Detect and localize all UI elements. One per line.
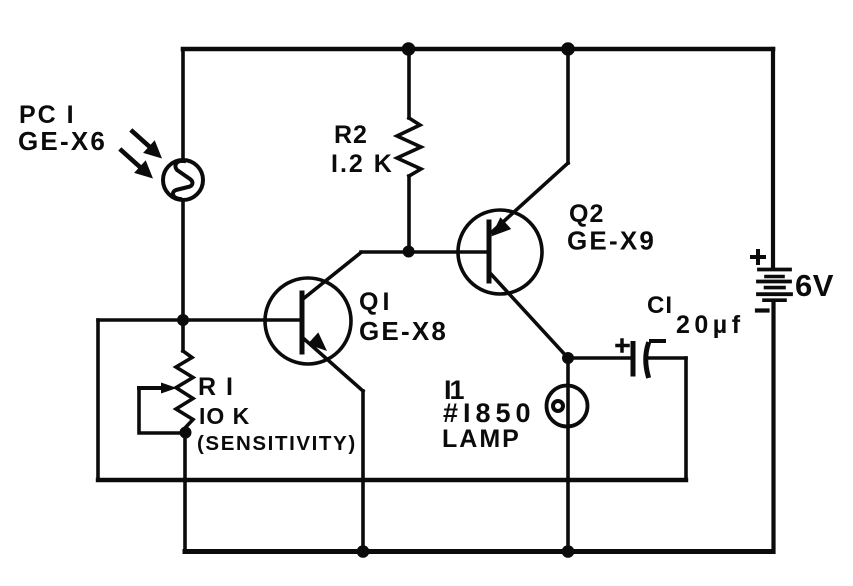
transistor Q2 bbox=[458, 163, 568, 358]
label C1 20uf bbox=[647, 292, 745, 339]
label I1 1850 LAMP bbox=[442, 375, 536, 453]
label PC1 GE-X6 bbox=[18, 101, 107, 156]
wire left box left side bbox=[96, 320, 100, 480]
lamp I1 bbox=[547, 386, 588, 427]
node collector junction dot bbox=[403, 246, 415, 258]
label R1 10K SENSITIVITY bbox=[197, 373, 357, 455]
wire node to capacitor bbox=[568, 356, 631, 360]
resistor R2 element bbox=[397, 118, 421, 176]
node base junction dot bbox=[177, 314, 189, 326]
svg-text:GE-X9: GE-X9 bbox=[567, 226, 656, 256]
label Q2 GE-X9 bbox=[567, 200, 656, 256]
battery minus sign bbox=[757, 308, 768, 312]
svg-text:#I850: #I850 bbox=[443, 398, 536, 428]
wire node down through lamp to bottom rail bbox=[566, 358, 570, 552]
capacitor plus sign bbox=[617, 340, 628, 351]
light arrow 1 into PC1 bbox=[133, 132, 163, 159]
capacitor minus sign bbox=[651, 339, 664, 343]
svg-text:6V: 6V bbox=[795, 268, 834, 303]
node Q1 emitter bottom dot bbox=[357, 545, 370, 558]
wire bottom horizontal (y=478) bbox=[98, 478, 686, 482]
wire battery to bottom rail bbox=[771, 303, 775, 552]
node top rail R2 dot bbox=[402, 42, 416, 56]
node lamp bottom dot bbox=[562, 545, 575, 558]
battery B1 bbox=[758, 270, 791, 301]
potentiometer R1 resistive element bbox=[176, 351, 193, 429]
svg-text:PC I: PC I bbox=[19, 101, 76, 129]
svg-text:R2: R2 bbox=[334, 121, 368, 149]
svg-text:20µf: 20µf bbox=[676, 311, 745, 339]
wire collector rail Q1 to Q2 base bbox=[361, 250, 489, 254]
svg-text:GE-X8: GE-X8 bbox=[359, 316, 448, 346]
svg-text:IO K: IO K bbox=[199, 403, 250, 429]
svg-text:GE-X6: GE-X6 bbox=[18, 126, 107, 156]
wire capacitor to right box bbox=[648, 356, 686, 360]
potentiometer R1 wiper arrow bbox=[139, 383, 177, 394]
wire bottom rail bbox=[185, 549, 773, 554]
node R1 bottom dot bbox=[180, 427, 192, 439]
photocell PC1 bbox=[163, 160, 203, 200]
wire Q2 upper lead to top rail bbox=[566, 49, 570, 163]
svg-text:I.2 K: I.2 K bbox=[331, 150, 394, 178]
wire photocell to base node bbox=[181, 200, 185, 320]
wire base node down to R1 bbox=[181, 320, 185, 351]
label R2 1.2K bbox=[331, 121, 394, 178]
svg-text:(SENSITIVITY): (SENSITIVITY) bbox=[197, 432, 357, 455]
wire cap box right side bbox=[684, 358, 688, 480]
battery plus sign bbox=[752, 251, 764, 263]
wire R1 wiper loop bbox=[139, 388, 184, 433]
wire Q1 base rail bbox=[98, 318, 302, 322]
wire R2 top lead bbox=[407, 49, 411, 118]
node cap lamp junction dot bbox=[562, 352, 574, 364]
wire top rail bbox=[183, 47, 773, 52]
svg-text:CI: CI bbox=[647, 292, 673, 319]
svg-text:QI: QI bbox=[359, 288, 393, 316]
capacitor C1 bbox=[633, 344, 648, 376]
wire right vertical top rail to battery bbox=[771, 49, 775, 268]
transistor Q1 bbox=[265, 253, 363, 392]
label 6V bbox=[795, 268, 834, 303]
svg-text:LAMP: LAMP bbox=[442, 425, 521, 453]
label Q1 GE-X8 bbox=[359, 288, 448, 346]
light arrow 2 into PC1 bbox=[122, 151, 154, 179]
svg-text:R I: R I bbox=[198, 373, 234, 401]
node top rail Q2 dot bbox=[561, 42, 575, 56]
svg-text:Q2: Q2 bbox=[569, 200, 604, 228]
wire R1 bottom to bottom rail bbox=[183, 432, 187, 552]
wire left vertical top (rail to photocell) bbox=[181, 49, 185, 161]
wire R2 bottom lead bbox=[407, 176, 411, 252]
wire Q1 emitter down to bottom rail bbox=[361, 391, 365, 552]
